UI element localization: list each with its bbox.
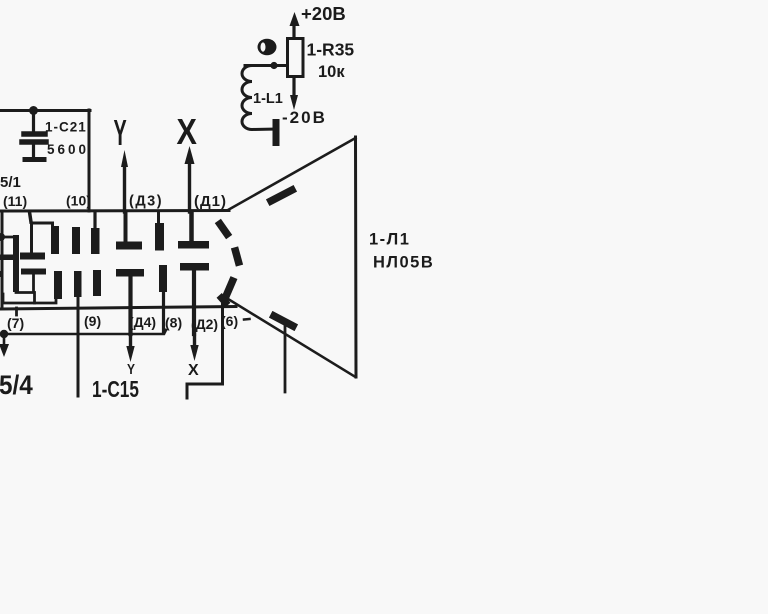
arrow +20V supply up: [292, 24, 295, 39]
deflection plate D1 upper tee: [178, 241, 209, 249]
svg-text:1-R35: 1-R35: [307, 40, 355, 60]
svg-text:X: X: [188, 362, 199, 379]
gun exit dashed arc dash 1: [220, 224, 227, 234]
electrode bar E upper with lead: [155, 223, 164, 251]
gun exit dashed arc dash 2: [236, 251, 239, 262]
wire pin 7 tick below neck: [15, 308, 18, 315]
anode coating dash on top slope: [271, 190, 292, 201]
capacitor C21 plate 1: [24, 131, 45, 137]
arrow X input upward above neck: [188, 161, 191, 212]
wire thick stub at left edge: [0, 255, 13, 261]
capacitor C21 top lead: [32, 110, 35, 131]
node junction dot on strip wire: [0, 330, 8, 338]
CRT U1 envelope neck bottom line: [0, 307, 236, 310]
wire tick from neck rail to modulator bus: [30, 212, 32, 222]
deflection plate D4 lower tee with Y lead: [116, 269, 144, 277]
svg-text:(8): (8): [165, 315, 182, 331]
svg-text:5600: 5600: [47, 142, 89, 157]
svg-text:Y: Y: [127, 361, 135, 378]
CRT U1 funnel top slope: [228, 138, 356, 210]
capacitor 1-C21 box top wire: [0, 109, 90, 112]
wire arrow down-left from strip: [3, 334, 6, 345]
wire left-edge vertical bus: [1, 212, 4, 308]
node dot at left edge heater wire: [0, 233, 5, 241]
svg-text:X: X: [177, 113, 197, 153]
svg-text:(10): (10): [66, 193, 91, 209]
capacitor C21 bottom lead: [32, 144, 35, 157]
electrode bar E lower with pin 8 lead: [159, 265, 167, 292]
gun exit dashed arc dash 3: [227, 281, 233, 295]
svg-text:(7): (7): [7, 315, 24, 331]
svg-text:1-L1: 1-L1: [253, 91, 283, 107]
svg-text:1-Л1: 1-Л1: [369, 231, 410, 249]
deflection plate D3 upper tee: [116, 242, 142, 250]
svg-text:5/4: 5/4: [0, 371, 33, 400]
svg-text:10к: 10к: [318, 63, 345, 81]
svg-text:НЛ05В: НЛ05В: [373, 254, 434, 272]
wire pin 6 lead with step: [187, 298, 223, 398]
svg-text:(11): (11): [3, 193, 27, 209]
arrow Y input upward above neck: [123, 165, 126, 212]
wire modulator top bus: [32, 223, 53, 254]
wire grid bus under cathode: [3, 294, 56, 303]
pin strip bottom wire: [0, 330, 166, 334]
svg-text:5/1: 5/1: [0, 174, 21, 191]
wire from coil to resistor left: [245, 64, 287, 67]
deflection plate D2 lower tee with X lead: [180, 263, 209, 271]
node junction dot on wire: [270, 62, 277, 69]
svg-text:(Д1): (Д1): [194, 193, 227, 210]
electrode grid bar C upper with pin 10 lead: [91, 228, 100, 254]
svg-text:1-С21: 1-С21: [45, 120, 87, 135]
svg-text:(9): (9): [84, 313, 101, 329]
node junction dot above C21: [29, 106, 38, 115]
svg-text:(Д4): (Д4): [129, 314, 156, 330]
CRT U1 envelope neck top line: [0, 209, 229, 213]
electrode grid bar A lower: [54, 271, 62, 299]
svg-text:1-С15: 1-С15: [92, 378, 139, 403]
heater element thick bar: [13, 235, 19, 292]
svg-text:Y: Y: [114, 114, 127, 154]
tick mark after pin 6 label: [244, 318, 250, 321]
arrow -20V below resistor: [292, 77, 295, 97]
cathode K top bar: [20, 253, 45, 260]
anode coating dash on bottom slope: [274, 316, 293, 326]
arrow Y output downward: [129, 334, 132, 351]
CRT U1 screen face: [354, 137, 358, 377]
svg-text:-20В: -20В: [282, 108, 327, 127]
cathode K bottom bar: [21, 269, 46, 275]
electrode grid bar C lower: [93, 270, 101, 296]
wire small stub left edge lower: [0, 271, 4, 277]
wire anode lead down from bottom-slope dash: [284, 324, 287, 392]
heater terminal thick bar right of coil: [273, 119, 280, 146]
wire cathode to heater loop: [16, 274, 34, 293]
electrode grid bar B lower with pin 9 lead: [74, 271, 82, 297]
electrode grid bar A upper: [51, 226, 59, 254]
svg-text:+20В: +20В: [301, 3, 346, 24]
CRT U1 funnel bottom slope: [224, 297, 356, 378]
inductor 1-L1 coil: [242, 66, 276, 130]
indicator dot symbol: [258, 39, 277, 56]
capacitor 1-C21 box right wire: [88, 110, 91, 211]
svg-text:(6): (6): [221, 313, 238, 329]
capacitor C21 bottom tee bar: [25, 157, 44, 162]
electrode grid bar B upper: [72, 227, 80, 254]
wire heater stub entering left edge: [0, 236, 14, 239]
capacitor C21 plate 2: [22, 139, 46, 145]
svg-text:(Д3): (Д3): [129, 194, 163, 210]
gun exit dashed arc corner blob: [222, 298, 226, 303]
resistor 1-R35 body: [288, 39, 304, 77]
arrow X output downward: [193, 334, 196, 350]
svg-text:(Д2): (Д2): [191, 316, 218, 332]
